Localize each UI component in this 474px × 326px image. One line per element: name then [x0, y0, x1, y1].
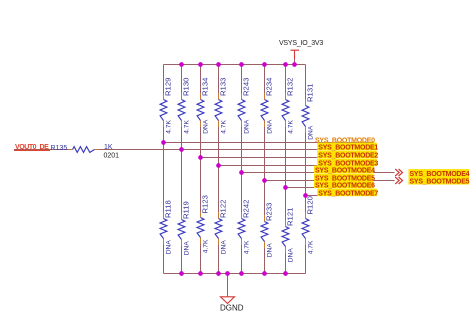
net label SYS_BOOTMODE2: [317, 151, 378, 160]
junction: [292, 62, 297, 67]
svg-text:4.7K: 4.7K: [203, 239, 210, 253]
wire column 5: [241, 65, 243, 94]
resistor R130 value 4.7K: [178, 78, 190, 134]
wire column 7: [285, 65, 287, 94]
svg-text:R122: R122: [219, 200, 228, 218]
svg-text:4.7K: 4.7K: [221, 120, 228, 134]
wire net SYS_BOOTMODE6: [286, 187, 374, 189]
net label SYS_BOOTMODE1: [317, 143, 378, 152]
svg-text:DNA: DNA: [184, 241, 191, 256]
net name underline VOUT0_DE: [14, 149, 50, 151]
svg-text:4.7K: 4.7K: [166, 120, 173, 134]
junction: [303, 193, 308, 198]
svg-text:SYS_BOOTMODE2: SYS_BOOTMODE2: [318, 153, 378, 160]
junction: [161, 140, 166, 145]
resistor R123 value 4.7K: [197, 195, 209, 253]
svg-text:DNA: DNA: [308, 125, 315, 140]
svg-text:VOUT0_DE: VOUT0_DE: [15, 144, 49, 151]
wire net VSYS_IO_3V3 top rail: [164, 64, 306, 66]
wire column 4: [218, 65, 220, 94]
svg-text:4.7K: 4.7K: [184, 120, 191, 134]
svg-text:DNA: DNA: [267, 243, 274, 258]
svg-text:SYS_BOOTMODE4: SYS_BOOTMODE4: [315, 168, 375, 175]
net label SYS_BOOTMODE5: [314, 174, 375, 183]
svg-text:R123: R123: [201, 195, 210, 213]
resistor R132 value 4.7K: [282, 78, 294, 134]
svg-text:R121: R121: [286, 208, 295, 226]
resistor R133 value 4.7K: [215, 78, 227, 134]
svg-text:SYS_BOOTMODE6: SYS_BOOTMODE6: [315, 183, 375, 190]
wire net SYS_BOOTMODE5: [265, 180, 395, 182]
svg-text:1K: 1K: [104, 144, 113, 151]
wire net SYS_BOOTMODE0: [164, 142, 374, 144]
wire net SYS_BOOTMODE2: [201, 157, 377, 159]
junction: [262, 271, 267, 276]
junction: [262, 62, 267, 67]
wire column 1: [163, 65, 165, 94]
wire ground bottom rail: [164, 273, 306, 275]
svg-text:R119: R119: [182, 201, 191, 219]
junction: [283, 62, 288, 67]
junction: [216, 163, 221, 168]
svg-text:VSYS_IO_3V3: VSYS_IO_3V3: [279, 40, 323, 47]
svg-text:R234: R234: [265, 77, 274, 96]
svg-text:R131: R131: [306, 84, 315, 102]
junction: [198, 271, 203, 276]
svg-text:0201: 0201: [104, 152, 120, 159]
svg-text:R242: R242: [242, 200, 251, 218]
resistor R134 value DNA: [197, 77, 209, 134]
power symbol VSYS_IO_3V3: [279, 40, 323, 65]
resistor R119 value DNA: [178, 201, 190, 255]
svg-text:DNA: DNA: [166, 240, 173, 255]
wire net VOUT0_DE / SYS_BOOTMODE1: [14, 149, 69, 151]
svg-text:R132: R132: [286, 78, 295, 96]
svg-text:4.7K: 4.7K: [308, 240, 315, 254]
junction: [239, 170, 244, 175]
svg-text:DNA: DNA: [203, 119, 210, 134]
svg-text:R243: R243: [242, 78, 251, 96]
svg-text:DNA: DNA: [221, 240, 228, 255]
svg-text:4.7K: 4.7K: [244, 240, 251, 254]
svg-text:R130: R130: [182, 78, 191, 96]
wire net SYS_BOOTMODE4: [242, 172, 395, 174]
svg-text:R134: R134: [201, 77, 210, 96]
resistor R243 value DNA: [238, 78, 250, 134]
resistor R122 value DNA: [215, 200, 227, 255]
junction: [216, 62, 221, 67]
net label SYS_BOOTMODE4: [314, 166, 375, 175]
svg-text:SYS_BOOTMODE7: SYS_BOOTMODE7: [318, 191, 378, 198]
junction: [239, 62, 244, 67]
svg-text:DNA: DNA: [267, 119, 274, 134]
junction: [198, 155, 203, 160]
svg-text:SYS_BOOTMODE5: SYS_BOOTMODE5: [410, 179, 470, 186]
resistor R120 value 4.7K: [302, 196, 314, 254]
wire net SYS_BOOTMODE3: [219, 165, 377, 167]
resistor R135 value 1K 0201: [51, 144, 120, 159]
resistor R118 value DNA: [160, 200, 172, 254]
resistor R129 value 4.7K: [160, 78, 172, 134]
net label SYS_BOOTMODE7: [317, 189, 378, 198]
junction: [225, 271, 230, 276]
net label SYS_BOOTMODE3: [317, 159, 378, 168]
net label SYS_BOOTMODE0: [315, 138, 375, 145]
ground DGND: [220, 274, 244, 313]
resistor R233 value DNA: [261, 203, 273, 258]
junction: [198, 62, 203, 67]
junction: [262, 178, 267, 183]
junction: [179, 147, 184, 152]
svg-text:R135: R135: [51, 145, 68, 152]
svg-text:SYS_BOOTMODE1: SYS_BOOTMODE1: [318, 145, 378, 152]
svg-text:R118: R118: [164, 200, 173, 218]
svg-text:DNA: DNA: [244, 119, 251, 134]
resistor R121 value DNA: [282, 208, 294, 263]
svg-text:R233: R233: [265, 203, 274, 221]
junction: [283, 185, 288, 190]
net label SYS_BOOTMODE6: [314, 181, 375, 190]
svg-text:R120: R120: [306, 196, 315, 214]
svg-text:DNA: DNA: [288, 248, 295, 263]
resistor R242 value 4.7K: [238, 200, 250, 255]
svg-text:R129: R129: [164, 78, 173, 96]
resistor R234 value DNA: [261, 77, 273, 134]
junction: [239, 271, 244, 276]
svg-text:R133: R133: [219, 78, 228, 96]
svg-text:DGND: DGND: [220, 304, 244, 313]
wire column 2: [181, 65, 183, 94]
wire column 3: [200, 65, 202, 94]
junction: [179, 271, 184, 276]
svg-text:4.7K: 4.7K: [288, 120, 295, 134]
junction: [283, 271, 288, 276]
wire column 8: [305, 65, 307, 100]
resistor R131 value DNA: [302, 84, 314, 140]
junction: [216, 271, 221, 276]
junction: [179, 62, 184, 67]
off-page connector SYS_BOOTMODE4: [395, 169, 469, 178]
wire column 6: [264, 65, 266, 94]
off-page connector SYS_BOOTMODE5: [395, 177, 469, 186]
wire net SYS_BOOTMODE7: [306, 195, 376, 197]
